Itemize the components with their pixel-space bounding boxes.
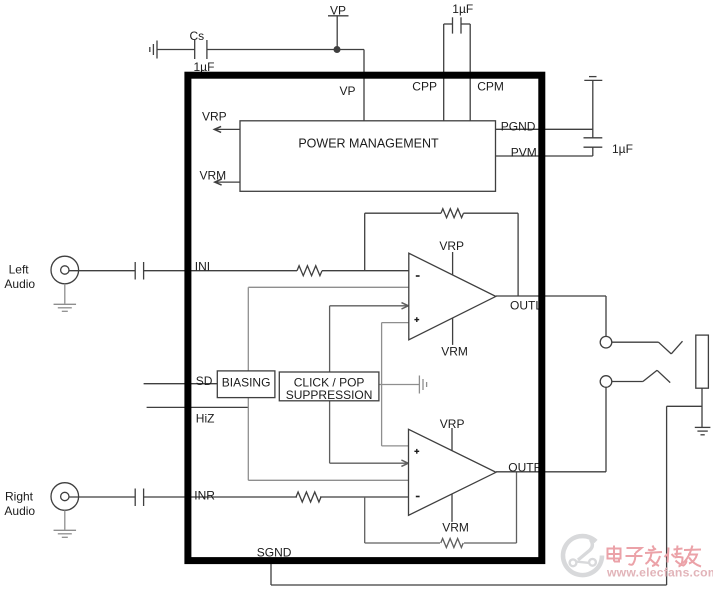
svg-text:VRM: VRM bbox=[441, 345, 468, 359]
svg-text:Right: Right bbox=[5, 489, 34, 503]
svg-text:VRP: VRP bbox=[440, 417, 465, 431]
svg-text:PVM: PVM bbox=[511, 145, 537, 159]
svg-text:VRP: VRP bbox=[439, 239, 464, 253]
svg-text:INI: INI bbox=[195, 259, 210, 273]
svg-text:PGND: PGND bbox=[501, 119, 536, 133]
svg-text:Audio: Audio bbox=[4, 277, 35, 291]
svg-text:Cs: Cs bbox=[190, 29, 205, 43]
svg-text:Left: Left bbox=[9, 263, 30, 277]
svg-text:SD: SD bbox=[196, 374, 213, 388]
svg-text:POWER MANAGEMENT: POWER MANAGEMENT bbox=[298, 137, 439, 151]
svg-text:Audio: Audio bbox=[4, 504, 35, 518]
svg-text:OUTR: OUTR bbox=[508, 461, 542, 475]
svg-text:HiZ: HiZ bbox=[196, 411, 215, 425]
svg-text:VRM: VRM bbox=[442, 520, 469, 534]
svg-text:VP: VP bbox=[340, 84, 356, 98]
svg-text:BIASING: BIASING bbox=[222, 376, 271, 390]
svg-text:1µF: 1µF bbox=[452, 2, 473, 16]
svg-text:VRP: VRP bbox=[202, 109, 227, 123]
svg-text:1µF: 1µF bbox=[612, 142, 633, 156]
svg-text:SUPPRESSION: SUPPRESSION bbox=[286, 388, 373, 402]
svg-text:www.elecfans.com: www.elecfans.com bbox=[606, 566, 713, 580]
svg-text:CPP: CPP bbox=[412, 80, 437, 94]
svg-text:OUTL: OUTL bbox=[510, 298, 542, 312]
svg-text:INR: INR bbox=[194, 489, 215, 503]
svg-text:VP: VP bbox=[330, 4, 346, 18]
svg-text:VRM: VRM bbox=[200, 168, 227, 182]
svg-text:CPM: CPM bbox=[477, 80, 504, 94]
